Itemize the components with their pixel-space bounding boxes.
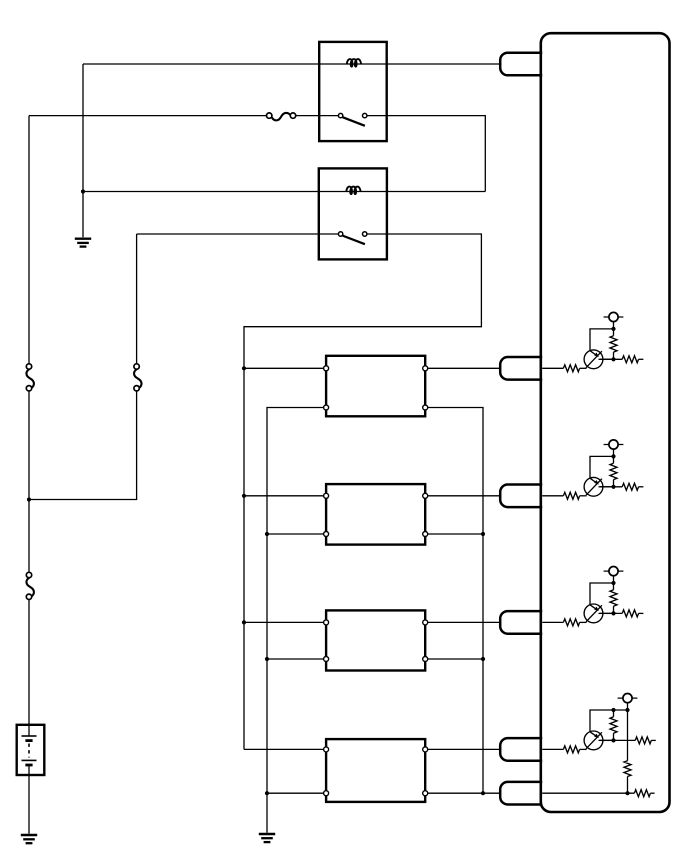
wire: injector L4 lower-left stub bbox=[267, 792, 326, 794]
wire: battery positive rail (left bus) bbox=[28, 116, 30, 725]
resistor R2b (base) bbox=[563, 492, 579, 499]
junction: ground bus at L4 bbox=[265, 791, 269, 795]
transistor Q4 bbox=[584, 731, 613, 750]
wire: supply to collector junction bbox=[613, 322, 615, 329]
resistor R5 (load divider upper leg) wire bbox=[627, 710, 629, 761]
wire: injector L4 to ECU pin P4 bbox=[425, 748, 511, 750]
ground G1 (relay coils) bbox=[75, 239, 91, 247]
wire: supply bus stub to injector L1 pin bbox=[244, 367, 326, 369]
transistor Q3 bbox=[584, 604, 613, 623]
resistor R3b (base) bbox=[563, 619, 579, 626]
supply terminal V1 bbox=[604, 312, 624, 321]
ground G3 (battery) bbox=[21, 835, 37, 843]
relay K1 box bbox=[319, 42, 387, 141]
battery BT1 box bbox=[17, 725, 45, 775]
junction: collector node bbox=[611, 581, 615, 585]
wire: emitter node to resistor R1e bbox=[600, 358, 622, 360]
resistor R4b (base) bbox=[563, 746, 579, 753]
junction: emitter node bbox=[611, 738, 615, 742]
junction: rails tie at battery bus bbox=[27, 497, 31, 501]
injector L1 terminal pins bbox=[324, 366, 428, 410]
resistor R1e (emitter output) bbox=[622, 356, 643, 363]
junction: monitor node bbox=[625, 791, 629, 795]
wire: injector L1 lower-right to sense bus bbox=[425, 408, 483, 794]
wire: base resistor to transistor Q1 base bbox=[580, 367, 587, 369]
resistor R6 (monitor output) bbox=[634, 790, 654, 797]
wire: injector L3 lower-right stub bbox=[425, 658, 483, 660]
fuse F3 (second rail) bbox=[134, 364, 142, 391]
resistor R1b (base) bbox=[563, 365, 579, 372]
wire: injector L4 lower-right to ECU pin P5 bbox=[425, 792, 511, 794]
relay K2 box bbox=[319, 168, 387, 259]
junction: emitter node bbox=[611, 485, 615, 489]
ECU connector pin P0 bbox=[500, 53, 542, 76]
wire: relay K1 switch input (from fuse F1) bbox=[29, 115, 339, 117]
junction: sense bus at L4/P5 line bbox=[481, 791, 485, 795]
relay K2 switch contact pins bbox=[338, 232, 367, 236]
ECU connector pin P1 bbox=[500, 357, 542, 380]
wire: supply to collector junction bbox=[613, 449, 615, 456]
junction: sense bus at L2 bbox=[481, 532, 485, 536]
op-amp/ECU module U1 enclosure bbox=[541, 33, 670, 812]
wire: relay K2 coil line (node to ground rail) bbox=[83, 191, 485, 193]
junction: supply node (second branch) bbox=[625, 708, 629, 712]
junction: emitter node bbox=[611, 611, 615, 615]
wire: collector junction to transistor Q4 collector bbox=[590, 710, 628, 732]
injector L4 box bbox=[326, 739, 425, 802]
battery BT1 plates bbox=[22, 725, 37, 775]
wire: collector junction to transistor Q3 collector bbox=[590, 583, 614, 605]
wire: fused rail to relay K2 bbox=[29, 234, 137, 500]
junction: collector node bbox=[611, 454, 615, 458]
wire: injector L2 lower-right stub bbox=[425, 533, 483, 535]
junction: relay coils to ground bbox=[81, 189, 85, 193]
wire: battery negative to ground bbox=[28, 775, 30, 834]
wire: ECU pin P4 to base resistor R4b bbox=[542, 748, 564, 750]
wire: base resistor to transistor Q3 base bbox=[580, 621, 587, 623]
wire: relay K1 switch output to node bbox=[367, 116, 486, 192]
fuse F2 (left rail upper) bbox=[26, 364, 34, 391]
fuse F4 (left rail lower) bbox=[26, 572, 34, 599]
ground G2 (injectors) bbox=[259, 834, 275, 842]
wire: emitter node to resistor R4e bbox=[600, 739, 635, 741]
wire: base resistor to transistor Q4 base bbox=[580, 748, 587, 750]
junction: collector node bbox=[611, 708, 615, 712]
wire: relay K2 switch output to injector supply bus bbox=[244, 234, 481, 749]
injector L3 box bbox=[326, 610, 425, 670]
wire: collector junction to transistor Q2 collector bbox=[590, 456, 614, 478]
wire: supply to collector junction bbox=[613, 576, 615, 583]
resistor R2e (emitter output) bbox=[622, 483, 643, 490]
wire: collector junction to transistor Q1 collector bbox=[590, 329, 614, 351]
injector L4 terminal pins bbox=[324, 747, 428, 796]
junction: sense bus at L3 bbox=[481, 657, 485, 661]
wire: injector L1 to ECU pin P1 bbox=[425, 367, 511, 369]
injector L3 terminal pins bbox=[324, 620, 428, 662]
relay K1 switch blade bbox=[343, 117, 365, 126]
wire: ECU pin P1 to base resistor R1b bbox=[542, 367, 564, 369]
wire: emitter node to resistor R2e bbox=[600, 486, 622, 488]
wire: injector L3 lower-left stub bbox=[267, 658, 326, 660]
wire: divider to monitor line bbox=[627, 777, 629, 794]
wire: injector L2 to ECU pin P2 bbox=[425, 495, 511, 497]
ECU connector pin P5 bbox=[500, 782, 542, 805]
relay K2 coil bbox=[346, 187, 360, 195]
ECU connector pin P2 bbox=[500, 485, 542, 508]
wire: supply bus stub to injector L3 pin bbox=[244, 621, 326, 623]
resistor R5 (divider) bbox=[624, 761, 631, 777]
resistor R1c (collector-emitter feedback) bbox=[610, 329, 617, 359]
wire: ECU pin P5 monitor line bbox=[542, 792, 635, 794]
relay K2 switch blade bbox=[343, 236, 365, 245]
relay K1 coil bbox=[347, 59, 361, 67]
injector L2 terminal pins bbox=[324, 493, 428, 536]
relay K1 switch contact pins bbox=[338, 113, 367, 117]
wire: supply to collector junction bbox=[627, 703, 629, 710]
injector L2 box bbox=[326, 484, 425, 544]
wire: injector L2 lower-left stub bbox=[267, 533, 326, 535]
wire: ECU pin P2 to base resistor R2b bbox=[542, 495, 564, 497]
junction: ground bus at L2 bbox=[265, 532, 269, 536]
junction: collector node bbox=[611, 327, 615, 331]
resistor R3e (emitter output) bbox=[622, 610, 643, 617]
ECU connector pin P4 bbox=[500, 738, 542, 761]
supply terminal V3 bbox=[604, 567, 624, 576]
wire: relay K2 switch input from fuse F3 rail bbox=[137, 233, 339, 235]
resistor R4c (collector-emitter feedback) bbox=[610, 710, 617, 740]
wire: emitter node to resistor R3e bbox=[600, 612, 622, 614]
transistor Q1 bbox=[584, 350, 613, 369]
junction: bus at L3 bbox=[242, 620, 246, 624]
wire: supply bus stub to injector L2 pin bbox=[244, 495, 326, 497]
junction: bus at L1 bbox=[242, 366, 246, 370]
wire: ECU pin P3 to base resistor R3b bbox=[542, 621, 564, 623]
supply terminal V4 bbox=[618, 694, 638, 703]
wire: injector L3 to ECU pin P3 bbox=[425, 621, 511, 623]
wire: supply bus end to injector L4 pin bbox=[244, 748, 326, 750]
wire: ECU pin P0 to relay K1 coil and left bbox=[83, 63, 500, 65]
resistor R3c (collector-emitter feedback) bbox=[610, 583, 617, 613]
resistor R2c (collector-emitter feedback) bbox=[610, 456, 617, 486]
wire: injector L1 lower-left to ground bus bbox=[267, 408, 326, 833]
junction: bus at L2 bbox=[242, 494, 246, 498]
wire: relay coil ground drop bbox=[82, 64, 84, 237]
fuse F1 (relay K1 feed) bbox=[267, 113, 296, 120]
resistor R4e (emitter output) bbox=[635, 737, 656, 744]
supply terminal V2 bbox=[604, 440, 624, 449]
wire: base resistor to transistor Q2 base bbox=[580, 495, 587, 497]
injector L1 box bbox=[326, 356, 425, 417]
transistor Q2 bbox=[584, 477, 613, 496]
junction: ground bus at L3 bbox=[265, 657, 269, 661]
junction: emitter node bbox=[611, 357, 615, 361]
ECU connector pin P3 bbox=[500, 611, 542, 634]
